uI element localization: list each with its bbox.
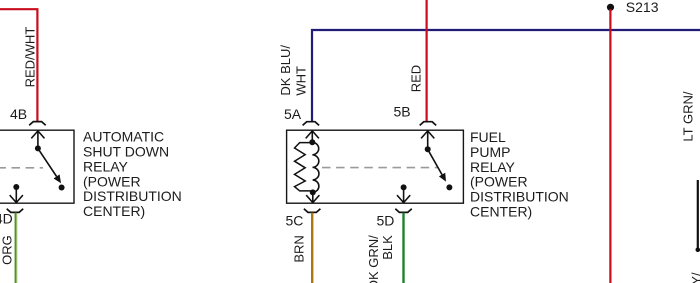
svg-text:5A: 5A (284, 106, 302, 122)
svg-text:FUEL: FUEL (470, 129, 506, 145)
pin 4D connector (7, 209, 24, 213)
svg-text:DK GRN/: DK GRN/ (366, 235, 381, 283)
coil bottom dot (310, 189, 316, 195)
pin 5B connector (420, 122, 437, 126)
svg-text:BRN: BRN (291, 235, 306, 262)
pin 5B inner arrow (427, 131, 429, 149)
svg-text:(POWER: (POWER (83, 173, 141, 189)
dashed mechanical link (left relay) (0, 167, 43, 169)
relay box: automatic shut down relay (left edge off-canvas) (0, 130, 74, 203)
wire: RED from S213 down (609, 9, 611, 283)
node S213 dot (607, 4, 614, 11)
wire: DK GRN/BLK down from pin 5D (402, 213, 404, 283)
junction dot (right edge) (696, 248, 700, 253)
switch contact dot (fuel pump relay) (446, 184, 452, 190)
svg-text:4D: 4D (0, 211, 13, 227)
svg-text:(POWER: (POWER (470, 174, 528, 190)
svg-text:PUMP: PUMP (470, 144, 510, 160)
pin 5D connector (395, 209, 412, 213)
svg-text:DISTRIBUTION: DISTRIBUTION (470, 189, 569, 205)
wire: DK GRN/ORG down from pin 4D (15, 213, 17, 283)
svg-text:DISTRIBUTION: DISTRIBUTION (83, 188, 182, 204)
svg-text:RED: RED (409, 65, 424, 92)
svg-text:SHUT DOWN: SHUT DOWN (83, 144, 169, 160)
svg-text:DK BLU/: DK BLU/ (278, 45, 293, 96)
switch contact dot (left relay) (59, 185, 65, 191)
pin 5C inner arrow (312, 192, 314, 202)
svg-text:RED/WHT: RED/WHT (22, 27, 37, 88)
svg-text:5B: 5B (394, 104, 411, 120)
pin 5A connector (303, 122, 320, 126)
pin 4D inner arrow (15, 187, 17, 202)
svg-text:S213: S213 (626, 0, 659, 15)
pin 4B connector (29, 122, 46, 126)
output pin dot (fuel pump relay) (401, 184, 407, 190)
wire: DK BLU/WHT horizontal+vertical to pin 5A (312, 30, 700, 122)
pin 5C connector (304, 209, 321, 213)
svg-text:RELAY: RELAY (470, 159, 516, 175)
svg-text:5D: 5D (377, 213, 395, 229)
coil top dot (309, 139, 315, 145)
output pin dot (left relay) (13, 184, 19, 190)
switch blade (fuel pump relay) (428, 149, 442, 174)
wire: BRN down from pin 5C (311, 213, 313, 283)
svg-text:LT GRN/: LT GRN/ (680, 91, 695, 141)
svg-text:4B: 4B (10, 106, 27, 122)
svg-text:AUTOMATIC: AUTOMATIC (83, 129, 164, 145)
svg-text:CENTER): CENTER) (83, 203, 145, 219)
svg-text:5C: 5C (286, 213, 304, 229)
svg-text:WHT: WHT (293, 66, 308, 96)
switch blade (left relay) (38, 148, 57, 176)
black wire segment (right edge) (697, 180, 699, 250)
svg-text:ORG: ORG (0, 235, 14, 265)
coil winding (inductor bumps) (312, 142, 319, 192)
coil resistor (parallel zigzag) (295, 143, 313, 191)
pin 5D inner arrow (403, 187, 405, 202)
svg-text:CENTER): CENTER) (470, 203, 532, 219)
pin 4B inner arrow (37, 131, 39, 149)
wire: RED/WHT from left edge to pin 4B (0, 9, 37, 122)
wire: RED to pin 5B (426, 0, 428, 122)
relay box: fuel pump relay (287, 130, 464, 203)
switch pivot dot (left relay) (35, 145, 41, 151)
svg-text:BLK: BLK (380, 235, 395, 260)
pin 5A inner arrow (311, 131, 313, 142)
dashed mechanical link (fuel pump relay) (322, 167, 438, 169)
svg-text:RELAY: RELAY (83, 158, 129, 174)
svg-text:GRY/: GRY/ (689, 272, 700, 283)
switch pivot dot (fuel pump relay) (425, 146, 431, 152)
